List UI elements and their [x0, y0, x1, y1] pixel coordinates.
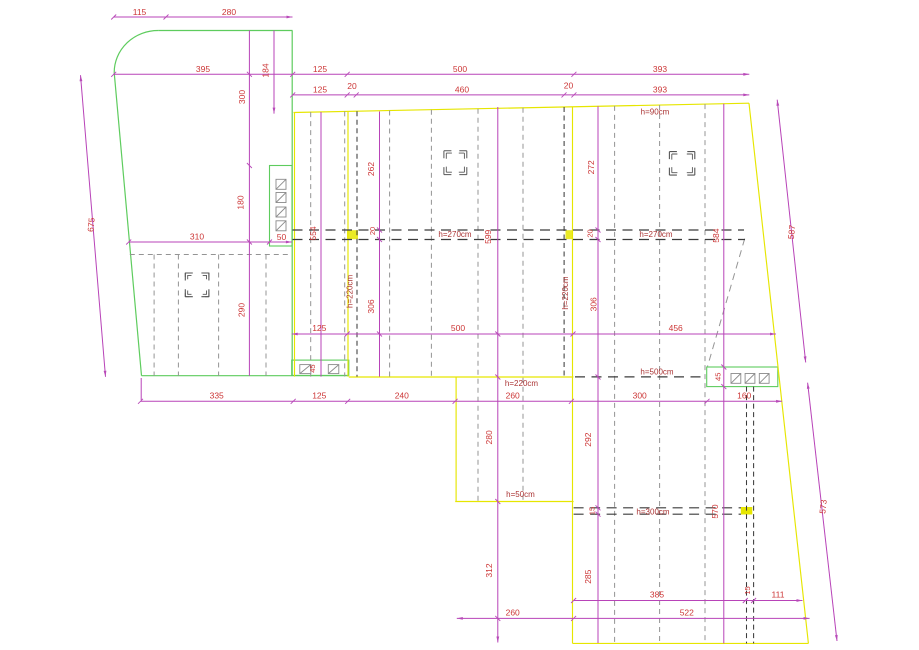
column marker M2 — [444, 151, 467, 175]
wire yellow annex west wall — [455, 377, 457, 502]
wire gray joist dashed v2 — [177, 255, 179, 376]
svg-text:584: 584 — [711, 228, 721, 242]
svg-text:456: 456 — [669, 323, 683, 333]
dim vertical 272-20-306-292-285 line — [597, 106, 599, 643]
dim row 260-522 — [457, 617, 810, 619]
svg-text:292: 292 — [583, 432, 593, 446]
entry landing green box right — [707, 367, 778, 387]
svg-text:125: 125 — [313, 64, 327, 74]
svg-text:20: 20 — [368, 227, 377, 235]
wire black dashed v x753 — [753, 387, 755, 644]
wire black dashed v x356 — [356, 111, 358, 376]
svg-text:h=90cm: h=90cm — [641, 107, 670, 116]
svg-text:20: 20 — [564, 81, 574, 91]
svg-text:385: 385 — [650, 590, 664, 600]
svg-text:312: 312 — [484, 563, 494, 577]
dim extension stub x141 — [140, 378, 142, 400]
wire yellow interior wall x346 — [347, 111, 349, 376]
dim vertical 262-20-306 line — [379, 112, 381, 377]
dim slanted 587 line — [777, 100, 806, 363]
wire gray joist dashed v3 — [218, 255, 220, 376]
dim row 125-20-460-20-393 — [293, 94, 750, 96]
wire gray joist dashed v4 — [265, 255, 267, 376]
svg-text:20: 20 — [586, 229, 595, 237]
svg-text:306: 306 — [366, 299, 376, 313]
svg-text:500: 500 — [453, 64, 467, 74]
svg-text:262: 262 — [366, 162, 376, 176]
svg-text:300: 300 — [633, 391, 647, 401]
dim row 335-125-240-260-300-160 — [141, 400, 783, 402]
dim vertical 554 line — [320, 112, 322, 377]
dim slanted 675 line — [81, 75, 106, 377]
wire gray joist dashed v6 — [389, 111, 391, 377]
wire gray joist dashed v4b — [344, 111, 346, 376]
svg-text:h=270cm: h=270cm — [438, 230, 471, 239]
wire beam dashed line h500 — [575, 376, 707, 378]
wire black dashed v x564 — [563, 107, 565, 377]
wire yellow south wall of lower wing — [573, 642, 809, 644]
svg-text:h=220cm: h=220cm — [505, 379, 538, 388]
wire yellow top wall — [294, 103, 750, 112]
svg-text:522: 522 — [680, 608, 694, 618]
svg-text:300: 300 — [237, 90, 247, 104]
dim slanted 573 line — [808, 383, 837, 641]
dim row 115-280 — [114, 16, 293, 18]
wire gray joist dashed v10 — [614, 106, 616, 644]
svg-text:125: 125 — [313, 85, 327, 95]
dim vertical 184 line — [273, 31, 275, 114]
stair shaft green box — [270, 166, 293, 247]
svg-text:395: 395 — [196, 64, 210, 74]
svg-text:h=500cm: h=500cm — [640, 367, 673, 376]
wire gray joist dashed v7 — [430, 110, 432, 377]
svg-text:335: 335 — [210, 391, 224, 401]
wire green parcel left edge — [114, 73, 141, 376]
wire green right wall — [291, 31, 293, 376]
svg-text:393: 393 — [653, 64, 667, 74]
dim vertical 599-280-312 line — [497, 107, 499, 643]
svg-text:h=220cm: h=220cm — [346, 275, 355, 308]
svg-text:45: 45 — [714, 373, 723, 381]
wire gray joist dashed v12 — [704, 104, 706, 643]
svg-text:393: 393 — [653, 85, 667, 95]
svg-text:310: 310 — [190, 231, 204, 241]
wire gray joist dashed v9 — [522, 108, 524, 502]
svg-text:184: 184 — [261, 63, 271, 77]
right entry step square B — [745, 374, 755, 384]
column marker M3 — [669, 152, 694, 176]
svg-text:160: 160 — [737, 391, 751, 401]
svg-text:280: 280 — [484, 430, 494, 444]
wire yellow left wall — [294, 113, 296, 377]
svg-text:h=300cm: h=300cm — [636, 508, 669, 517]
svg-text:260: 260 — [506, 608, 520, 618]
svg-text:125: 125 — [312, 391, 326, 401]
svg-text:115: 115 — [133, 7, 147, 17]
svg-text:290: 290 — [237, 303, 247, 317]
dim row 125-500-456 — [292, 333, 776, 335]
entry landing green box left — [292, 360, 349, 375]
wire yellow long interior wall x572 — [572, 107, 574, 644]
wire yellow annex south wall — [455, 501, 573, 503]
right entry step square C — [759, 374, 769, 384]
svg-text:570: 570 — [710, 504, 720, 518]
svg-text:h=220cm: h=220cm — [561, 276, 570, 309]
svg-text:675: 675 — [85, 217, 96, 232]
wire beam dashed line h270 lower — [293, 239, 746, 241]
wire gray joist dashed v1 — [153, 255, 155, 376]
yellow pillar block — [741, 507, 753, 515]
stair step square 2 — [276, 193, 286, 203]
wire gray dashed diagonal — [708, 239, 745, 367]
svg-text:272: 272 — [586, 160, 596, 174]
svg-text:500: 500 — [451, 323, 465, 333]
svg-text:45: 45 — [308, 364, 317, 372]
yellow pillar block at wall x572 beam — [566, 230, 573, 239]
dim row 310-50 — [129, 241, 292, 243]
dim row 395-125-500-393 — [114, 73, 750, 75]
svg-text:180: 180 — [236, 195, 246, 209]
wire yellow right slanted wall — [749, 103, 808, 643]
svg-text:460: 460 — [455, 85, 469, 95]
entry step square A — [300, 365, 311, 374]
wire beam dashed line h270 upper — [293, 229, 745, 231]
svg-text:240: 240 — [395, 391, 409, 401]
stair step square 1 — [276, 179, 286, 189]
wire green parcel top edge — [158, 30, 292, 32]
wire black dashed v x746 — [746, 387, 748, 644]
wire green parcel bottom edge — [142, 375, 349, 377]
svg-text:573: 573 — [817, 499, 828, 514]
dim vertical 584-570 line — [723, 104, 725, 644]
svg-text:260: 260 — [506, 391, 520, 401]
svg-text:h=270cm: h=270cm — [639, 230, 672, 239]
svg-text:599: 599 — [483, 229, 493, 243]
svg-text:15: 15 — [588, 507, 597, 515]
yellow pillar block at wall x346 beam — [347, 230, 358, 239]
wire beam dashed line h300 lower — [574, 513, 741, 515]
column marker M1 — [185, 273, 209, 297]
svg-text:280: 280 — [222, 7, 236, 17]
svg-text:111: 111 — [772, 590, 785, 600]
svg-text:15: 15 — [743, 586, 752, 594]
wire gray joist dashed v11 — [659, 105, 661, 643]
right entry step square A — [731, 374, 741, 384]
wire green parcel rounded corner arc — [114, 31, 158, 73]
wire yellow bottom wall of upper block — [349, 376, 574, 378]
svg-text:50: 50 — [277, 232, 287, 242]
wire gray dashed ceiling line left room — [130, 254, 291, 256]
dim vertical 300-180 line — [248, 31, 250, 376]
svg-text:125: 125 — [312, 323, 326, 333]
svg-text:20: 20 — [347, 81, 357, 91]
stair step square 4 — [276, 221, 286, 231]
svg-text:h=50cm: h=50cm — [506, 490, 535, 499]
wire gray joist dashed v5 — [310, 112, 312, 377]
dim row 385-15-111 — [574, 600, 803, 602]
entry step square B — [328, 365, 339, 374]
svg-text:587: 587 — [786, 224, 797, 239]
wire gray joist dashed v8 — [477, 109, 479, 502]
stair step square 3 — [276, 207, 286, 217]
svg-text:306: 306 — [589, 297, 599, 311]
svg-text:285: 285 — [583, 569, 593, 583]
wire beam dashed line h300 upper — [574, 507, 741, 509]
svg-text:554: 554 — [308, 226, 318, 240]
